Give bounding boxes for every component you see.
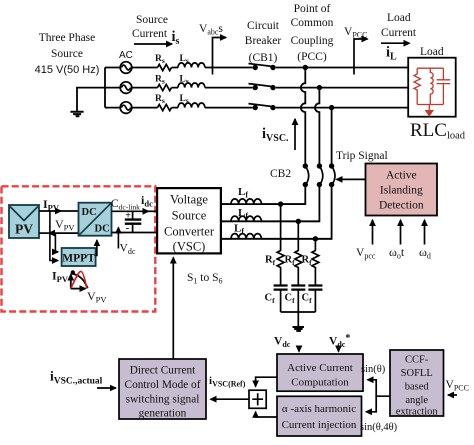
breaker CB2 phase B — [317, 163, 322, 168]
svg-text:extraction: extraction — [396, 407, 439, 418]
node line2 Rf tap — [296, 219, 301, 224]
block Direct Current Control — [119, 359, 206, 419]
svg-text:Source: Source — [136, 14, 168, 26]
wire CCF to alpha-box — [366, 396, 376, 412]
capacitor C load — [437, 68, 451, 104]
svg-text:Common: Common — [291, 17, 334, 29]
svg-text:Converter: Converter — [164, 225, 215, 239]
svg-text:-: - — [126, 222, 130, 234]
svg-text:sin(θ): sin(θ) — [361, 364, 386, 375]
AC source G3 — [120, 102, 132, 114]
svg-text:Ls: Ls — [180, 75, 189, 86]
inductor L load — [430, 68, 433, 104]
node MPP dot — [71, 270, 75, 274]
wire Ipv to MPPT — [50, 211, 58, 261]
svg-text:Active: Active — [386, 170, 417, 182]
ground (filter) — [293, 327, 305, 331]
label Source Current i_s with arrow — [132, 14, 180, 47]
resistor Rf 1 — [277, 204, 284, 285]
block DC/DC converter — [79, 203, 112, 236]
svg-text:SOFLL: SOFLL — [401, 368, 433, 379]
inductor Ls phase 3 — [178, 103, 205, 108]
summing junction — [249, 390, 266, 408]
node PCC phase B — [317, 85, 322, 90]
svg-text:(CB1): (CB1) — [249, 52, 278, 64]
PV curve I-V (black arc) — [71, 274, 88, 289]
wire ground stem — [297, 312, 299, 326]
svg-text:Rs: Rs — [155, 94, 165, 105]
wire vertical phase A to CB2 with hops — [301, 68, 305, 167]
svg-text:(PCC): (PCC) — [297, 51, 327, 63]
svg-text:Source: Source — [51, 48, 83, 60]
breaker CB1 phase 3 — [253, 105, 258, 110]
inductor Lf phase 2 — [221, 216, 320, 221]
wire ACC to sum — [256, 377, 277, 386]
svg-text:α -axis harmonic: α -axis harmonic — [282, 403, 356, 415]
capacitor C dc-link — [132, 211, 134, 232]
PV curve P-V (red) — [71, 271, 87, 288]
wire trip signal arrow — [337, 178, 366, 180]
svg-text:AC: AC — [119, 50, 133, 61]
svg-text:Source: Source — [172, 209, 207, 223]
phase line 3 wires — [105, 107, 408, 109]
svg-text:Ls: Ls — [180, 94, 189, 105]
wire MPPT to DC/DC — [96, 240, 97, 255]
svg-text:switching signal: switching signal — [126, 394, 200, 406]
wire PV to DC/DC top — [39, 210, 61, 212]
svg-text:Point of: Point of — [294, 3, 331, 15]
wire source left bus — [104, 68, 106, 108]
svg-text:Control Mode of: Control Mode of — [125, 379, 201, 391]
wire ground branch — [77, 88, 105, 111]
wire RLC ground stem — [428, 105, 430, 111]
phase line 2 wires — [105, 87, 408, 89]
breaker CB1 phase 1 — [253, 65, 258, 70]
wire CB2 phase C down to line 3' — [221, 185, 332, 239]
resistor Rs phase 1 — [158, 64, 172, 70]
wire CCF to ACC — [368, 380, 391, 396]
svg-text:Load: Load — [420, 46, 444, 58]
svg-text:angle: angle — [405, 395, 428, 406]
capacitor Cf 1 — [274, 286, 288, 290]
block VSC — [157, 188, 221, 253]
wire CB2 phase B down to line 2' — [221, 185, 320, 222]
RLC load red circuit — [414, 68, 450, 110]
svg-text:Trip Signal: Trip Signal — [336, 150, 388, 162]
svg-text:Load: Load — [387, 12, 411, 24]
wire RLC bottom bus — [417, 104, 443, 106]
svg-text:MPPT: MPPT — [62, 253, 95, 265]
AC source G2 — [120, 82, 132, 94]
svg-text:S1 to S6: S1 to S6 — [187, 272, 223, 286]
svg-text:Circuit: Circuit — [247, 20, 280, 32]
AC source G1 — [120, 62, 132, 74]
svg-text:Coupling: Coupling — [291, 35, 334, 47]
svg-text:Direct Current: Direct Current — [130, 365, 196, 377]
svg-text:CCF-: CCF- — [405, 355, 429, 366]
resistor Rf 3 — [312, 239, 319, 285]
svg-text:Ls: Ls — [180, 54, 189, 65]
resistor Rf 2 — [295, 221, 302, 285]
resistor Rs phase 2 — [158, 85, 172, 91]
ground (source) — [70, 112, 83, 116]
wire gate signal to VSC — [172, 258, 174, 360]
node line1 Rf tap — [278, 201, 283, 206]
breaker CB2 phase C — [329, 163, 334, 168]
PV subsystem dashed boundary — [2, 186, 156, 311]
svg-text:generation: generation — [139, 408, 187, 420]
wire Vpv to MPPT — [55, 233, 58, 252]
node line3 Rf tap — [313, 236, 318, 241]
svg-text:Current: Current — [381, 27, 417, 39]
block Active Islanding Detection — [366, 164, 438, 216]
wire alpha-box to sum — [256, 412, 277, 417]
breaker CB1 phase 2 — [253, 85, 258, 90]
capacitor Cf 2 — [291, 286, 305, 290]
svg-text:Computation: Computation — [291, 377, 349, 389]
breaker CB2 phase A — [303, 163, 308, 168]
RLC down arrow — [425, 110, 434, 117]
svg-text:+: + — [125, 210, 131, 221]
svg-text:Voltage: Voltage — [170, 193, 208, 207]
wire PV to DC/DC bottom — [49, 232, 79, 234]
PV panel — [9, 205, 39, 238]
wire DC/DC to VSC bottom — [112, 232, 158, 234]
inductor Ls phase 2 — [178, 83, 205, 88]
wire AID input wot — [400, 220, 402, 245]
wire AID input wd — [424, 220, 426, 245]
block alpha-axis harmonic Current injection — [277, 396, 362, 436]
block MPPT — [62, 248, 96, 266]
svg-text:Detection: Detection — [379, 200, 424, 212]
svg-text:Current injection: Current injection — [282, 419, 357, 431]
svg-text:Three Phase: Three Phase — [39, 32, 96, 44]
inductor Ls phase 1 — [178, 63, 205, 68]
resistor R load — [414, 68, 420, 104]
PV curve axes — [70, 275, 72, 289]
label V_dc with arrow — [117, 228, 119, 249]
label Point of Common Coupling (PCC) — [291, 3, 334, 63]
svg-text:based: based — [405, 382, 430, 393]
svg-text:415 V(50 Hz): 415 V(50 Hz) — [35, 64, 100, 76]
block Load box — [408, 58, 456, 117]
wire AID input Vpcc — [372, 220, 374, 245]
wire vertical phase C to CB2 — [331, 108, 333, 166]
inductor Lf phase 3 — [221, 234, 332, 239]
svg-text:(VSC): (VSC) — [173, 240, 206, 254]
svg-text:Rs: Rs — [155, 75, 165, 86]
svg-text:sin(θ,4θ): sin(θ,4θ) — [360, 422, 398, 433]
label Load Current i_L — [381, 12, 417, 63]
wire RLC top bus — [417, 67, 443, 69]
svg-text:Breaker: Breaker — [245, 35, 282, 47]
resistor Rs phase 3 — [158, 105, 172, 111]
inductor Lf phase 1 — [221, 199, 305, 204]
wire sum output to Direct box — [211, 398, 250, 400]
label Circuit Breaker (CB1) — [245, 20, 282, 64]
node PCC phase C — [329, 105, 334, 110]
phase line 1 wires — [105, 67, 408, 69]
node PCC phase A — [303, 65, 308, 70]
svg-text:PV: PV — [15, 222, 33, 237]
block CCF-SOFLL angle extraction — [390, 350, 444, 416]
svg-text:Active Current: Active Current — [287, 362, 353, 374]
block Active Current Computation — [277, 354, 363, 391]
svg-text:Islanding: Islanding — [380, 185, 423, 197]
wire DC/DC to VSC top — [112, 210, 149, 212]
wire Cf bottom bus — [281, 311, 316, 313]
label: Three Phase Source 415 V(50 Hz) — [35, 32, 100, 76]
capacitor Cf 3 — [308, 286, 322, 290]
svg-text:DC: DC — [95, 224, 110, 235]
svg-text:Rs: Rs — [155, 54, 165, 65]
wire CB2 phase A down to line 1' — [221, 185, 305, 205]
svg-text:Current: Current — [132, 28, 168, 40]
wire vertical phase B to CB2 with hop — [315, 88, 319, 166]
svg-text:DC: DC — [82, 207, 97, 218]
svg-text:CB2: CB2 — [270, 168, 291, 180]
